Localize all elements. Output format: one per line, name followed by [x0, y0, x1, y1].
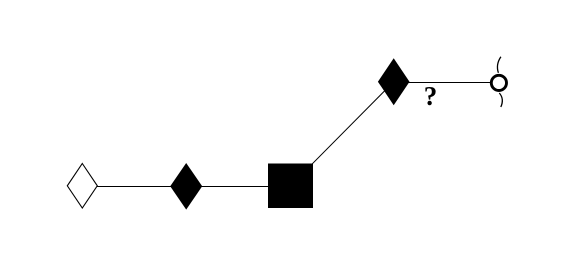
- node D black diamond: [378, 58, 410, 105]
- svg-text:?: ?: [424, 81, 438, 111]
- wire: [186, 186, 290, 188]
- reducing end ring: [491, 75, 506, 90]
- node A white diamond: [67, 164, 97, 209]
- node B black diamond: [170, 163, 202, 210]
- wire: [291, 82, 394, 186]
- wire: [394, 82, 491, 84]
- reducing end squiggle bottom arc: [499, 93, 502, 107]
- reducing end squiggle top arc: [497, 57, 500, 73]
- node C black square: [268, 164, 313, 209]
- wire: [82, 186, 186, 188]
